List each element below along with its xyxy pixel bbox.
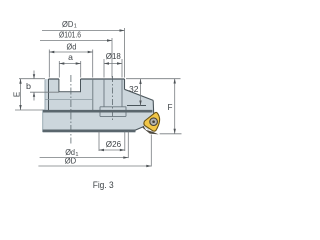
dimension O26 [99, 132, 125, 152]
svg-text:a: a [68, 52, 73, 62]
cutter body fill [43, 79, 154, 132]
mounting hole walls (O18) [104, 79, 122, 107]
dimension E [15, 79, 43, 110]
svg-text:b: b [26, 81, 31, 91]
insert shadow wedge [143, 126, 159, 135]
dimension Od [49, 50, 92, 78]
svg-text:1: 1 [74, 24, 77, 30]
dimension F [160, 79, 182, 134]
bottom face thick edge [43, 129, 136, 132]
bore wall left x=49 none (merged) ; counterbore walls [92, 79, 94, 110]
svg-text:Fig. 3: Fig. 3 [93, 180, 114, 190]
svg-text:Ø18: Ø18 [106, 51, 121, 61]
right step edge [124, 79, 126, 89]
pocket bottom chamfer [135, 126, 144, 130]
dimension Od1 [40, 132, 129, 159]
seat diagonal [125, 89, 154, 100]
chamfer line left [48, 79, 50, 110]
dimension O101.6 [40, 38, 112, 78]
top face edge [49, 78, 125, 80]
centerline bolt hole [112, 76, 114, 121]
svg-text:ØD: ØD [62, 19, 73, 29]
seat right vertical [152, 100, 155, 114]
dimension 32 [126, 79, 181, 106]
dimension a [59, 61, 80, 78]
dimension OD [38, 135, 151, 167]
svg-text:32: 32 [129, 84, 139, 94]
insert screw [150, 118, 158, 126]
pocket ledge line [127, 105, 146, 107]
flange step dark band [43, 110, 153, 113]
centerline main axis [70, 75, 72, 144]
counterbore bottom line [45, 99, 93, 101]
insert (yellow) [144, 112, 160, 131]
screw head counterbore box (O26) [100, 107, 126, 117]
body outer light edge left [43, 80, 45, 133]
dimension b [19, 71, 59, 101]
svg-text:Ø101.6: Ø101.6 [59, 30, 81, 40]
svg-text:ØD: ØD [65, 156, 77, 166]
svg-text:Ød: Ød [67, 42, 77, 52]
svg-text:Ø26: Ø26 [106, 139, 122, 149]
slot (keyway) outline [59, 79, 81, 92]
dimension OD1 [42, 28, 125, 78]
svg-text:E: E [12, 92, 21, 97]
dimension O18 [104, 59, 122, 78]
svg-text:F: F [168, 102, 173, 112]
